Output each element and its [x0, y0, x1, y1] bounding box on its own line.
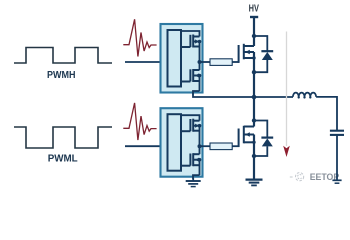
node M1 source / D1 anode [252, 70, 256, 74]
node M1 body-source [252, 56, 255, 59]
ground C1 [332, 179, 341, 181]
gate driver U2 (low side) [161, 108, 211, 179]
U1 package body [161, 24, 203, 93]
power MOSFET M2 (low side) [239, 126, 254, 147]
svg-text:HV: HV [249, 4, 260, 15]
gate resistor R1 [210, 59, 232, 66]
diode D1 (high side) [254, 36, 273, 72]
U1 upper output transistor (PMOS) [181, 35, 200, 48]
node M2 drain / D2 [252, 118, 256, 122]
U1 VDD rail [181, 31, 200, 37]
capacitor C1 [330, 130, 344, 132]
U1 output wire [200, 61, 211, 63]
ringing waveform top [123, 19, 156, 56]
switch node wire [193, 94, 254, 98]
wire HV to M1 drain [253, 17, 255, 46]
ground main [246, 180, 263, 186]
gate resistor R2 [210, 143, 232, 150]
wire switch node to M2 drain [253, 97, 255, 127]
wire M2 source to ground [253, 135, 255, 180]
U2 VDD rail [181, 115, 200, 121]
node M1 drain / D1 [252, 34, 256, 38]
wire L1 to C1 [316, 97, 337, 131]
U1 totem pole output rail [199, 42, 201, 71]
U2 totem pole output rail [199, 126, 201, 155]
wire PWMH input [125, 61, 168, 63]
ground U2 [186, 178, 201, 187]
switch node junction [252, 95, 257, 100]
U2 package body [161, 108, 203, 177]
U1 input buffer block [168, 30, 182, 87]
U2 output wire [200, 145, 211, 147]
inductor L1 [293, 93, 316, 97]
wire switch node to inductor [254, 96, 293, 98]
wire R2 to M2 gate [232, 145, 239, 147]
node M2 body-source [252, 141, 255, 144]
U2 output node [198, 144, 202, 148]
U2 source return rail [193, 175, 200, 179]
svg-text:PWMH: PWMH [47, 70, 76, 81]
wire C1 to ground [336, 135, 338, 180]
node M2 source / D2 anode [252, 154, 256, 158]
diode D2 (low side) [254, 121, 273, 157]
ringing waveform bottom [123, 103, 156, 140]
svg-text:PWML: PWML [48, 153, 78, 164]
PWMH waveform [14, 48, 112, 64]
wire R1 to M1 gate [232, 61, 239, 63]
probe arrow line [286, 32, 288, 147]
wire M1 source to switch node [253, 52, 255, 97]
EETOP watermark logo [290, 173, 304, 181]
power MOSFET M1 (high side) [239, 44, 254, 63]
U1 lower output transistor (NMOS) [181, 69, 200, 82]
wire PWML input [125, 145, 168, 147]
U2 lower output transistor (NMOS) [181, 153, 200, 166]
HV terminal bar [250, 16, 258, 18]
U1 output node [198, 60, 202, 64]
U1 source return rail [193, 91, 200, 95]
PWML waveform [14, 127, 112, 148]
svg-text:EETOP: EETOP [310, 172, 340, 183]
U2 upper output transistor (PMOS) [181, 119, 200, 132]
gate driver U1 (high side) [161, 24, 211, 95]
U2 input buffer block [168, 114, 182, 171]
probe arrowhead [283, 146, 290, 157]
